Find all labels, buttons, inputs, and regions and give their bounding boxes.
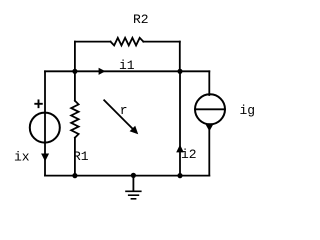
arrowhead i2 (up) [176,145,184,153]
svg-text:ig: ig [240,103,256,118]
wire R2 branch right riser [179,42,181,72]
svg-text:i1: i1 [119,58,135,73]
wire R2 branch top left [75,41,111,43]
ground bar 2 [128,194,139,196]
svg-text:R2: R2 [133,12,149,27]
arrowhead ig (down) [206,124,214,131]
ground bar 3 [131,198,137,200]
current source ig bar [195,108,225,110]
wire left branch [44,71,46,175]
ground stub [132,175,134,190]
wire R1 branch top [74,71,76,100]
wire ig branch top stub [208,71,210,95]
wire ig branch bottom stub [208,125,210,176]
wire bottom [45,175,209,177]
svg-text:ix: ix [14,149,30,164]
wire top main [45,70,209,72]
arrowhead ix (down) [41,154,49,162]
wire R2 branch top right [143,41,179,43]
wire i2 branch [179,71,181,175]
wire r arrow shaft [104,100,134,130]
svg-text:r: r [120,103,128,118]
resistor R1 [71,101,78,138]
wire R2 branch left riser [74,42,76,72]
node R1-bottom junction dot [72,173,77,178]
ground bar 1 [125,190,141,192]
svg-text:R1: R1 [73,149,89,164]
voltage source U ix circle [30,113,60,143]
current source ig circle [195,94,225,124]
plus sign of source ix [35,103,42,105]
arrowhead i1 (right) [99,68,106,75]
node ground junction dot [131,173,136,178]
arrowhead r (diagonal) [130,126,139,135]
resistor R2 [111,38,144,46]
svg-text:i2: i2 [181,147,197,162]
node B junction dot [177,69,182,74]
wire R1 branch bottom [74,138,76,176]
node A junction dot [72,69,77,74]
node i2-bottom junction dot [177,173,182,178]
